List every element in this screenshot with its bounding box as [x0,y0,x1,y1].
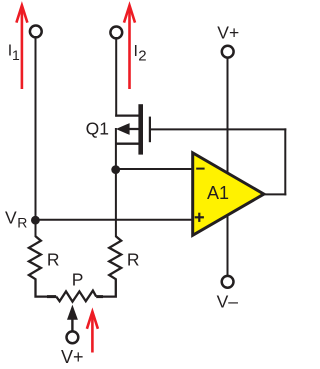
svg-text:V+: V+ [217,23,239,43]
potentiometer P body [47,295,56,298]
terminal V+ top [222,46,234,58]
Q1 source lead [115,143,140,145]
svg-text:P: P [72,270,84,290]
wire I1 branch vertical [35,38,37,237]
Q1 drain lead [115,114,140,116]
svg-text:V+: V+ [61,347,84,367]
wire VR node to non-inverting input [35,219,193,221]
Q1 bulk lead with arrow [124,128,141,130]
wire V+ rail vertical [227,57,229,276]
node Q1 source junction dot [111,165,120,174]
resistor R left [29,236,48,296]
op-amp minus sign [196,168,204,170]
Q1 gate bar [149,117,151,143]
current arrow I1 [16,5,27,89]
node VR junction dot [31,216,40,225]
transistor Q1 [115,104,150,154]
wire op-amp output [263,193,286,195]
wire node to inverting input [115,168,193,170]
svg-text:1: 1 [12,47,20,63]
svg-text:R: R [17,215,27,231]
terminal V+ wiper [67,331,79,343]
terminal I2 [110,27,122,39]
svg-text:Q1: Q1 [86,119,109,139]
resistor R right [102,236,121,296]
terminal V- bottom [222,276,234,288]
op-amp A1 [193,153,264,236]
svg-text:A1: A1 [207,183,229,203]
svg-text:V–: V– [217,292,239,312]
wire gate feedback top [150,128,286,130]
wire feedback right vertical [284,128,286,195]
svg-text:R: R [47,250,60,270]
current arrow I2 [124,5,135,89]
Q1 channel bar [138,104,143,154]
wire I2 terminal to Q1 drain [115,39,117,117]
op-amp plus sign [195,216,204,218]
current arrow wiper [87,312,98,353]
wire Q1 source/bulk down to node [115,128,117,237]
potentiometer wiper arrow [67,305,78,320]
terminal I1 [30,26,42,38]
svg-text:2: 2 [138,48,146,65]
svg-text:R: R [127,250,140,270]
svg-text:V: V [5,208,17,228]
